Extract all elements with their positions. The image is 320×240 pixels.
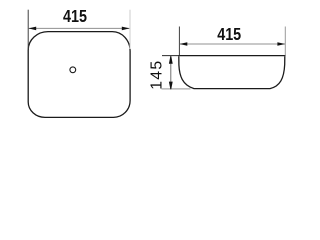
side view: dimension line 145 <box>170 57 172 89</box>
side view: 415 left arrowhead <box>180 42 188 46</box>
side view: 145 bottom extension line (gray) <box>162 88 191 90</box>
side view: 415 right arrowhead <box>277 42 285 46</box>
side view: rim top line <box>179 55 286 57</box>
side view: bowl outline <box>179 56 285 88</box>
side view: 415 left extension line <box>178 27 180 56</box>
side view: 145 top extension line <box>162 55 179 57</box>
top view: left extension line <box>27 10 29 49</box>
side view: 145 top arrowhead <box>169 56 173 64</box>
top view: right extension line <box>129 10 131 49</box>
top view: right arrowhead <box>122 27 130 31</box>
top view: dimension line 415 <box>29 27 130 29</box>
svg-text:415: 415 <box>63 6 87 26</box>
svg-text:415: 415 <box>217 24 241 44</box>
top view: left arrowhead <box>28 27 36 31</box>
top view: basin outline (rounded square) <box>28 32 130 118</box>
svg-text:145: 145 <box>149 61 166 90</box>
top view: drain hole circle <box>70 67 76 73</box>
side view: dimension line 415 <box>180 43 285 45</box>
side view: 415 right extension line <box>284 27 286 56</box>
side view: 145 bottom arrowhead <box>169 82 173 90</box>
